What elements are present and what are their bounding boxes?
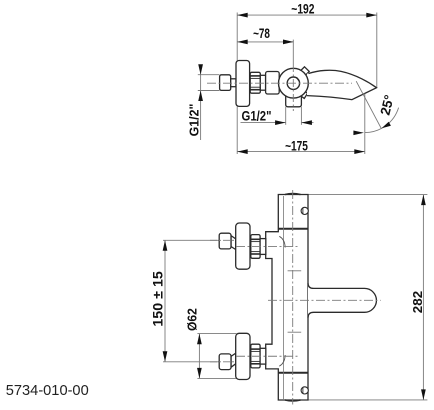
svg-text:~78: ~78 [253,26,270,42]
svg-text:~192: ~192 [291,1,314,17]
svg-text:282: 282 [410,291,425,313]
svg-text:5734-010-00: 5734-010-00 [6,383,89,399]
svg-text:G1/2": G1/2" [187,104,202,137]
svg-text:~175: ~175 [285,138,308,154]
svg-text:150 ± 15: 150 ± 15 [150,271,166,327]
svg-text:G1/2": G1/2" [242,108,272,124]
svg-text:Ø62: Ø62 [184,308,199,331]
